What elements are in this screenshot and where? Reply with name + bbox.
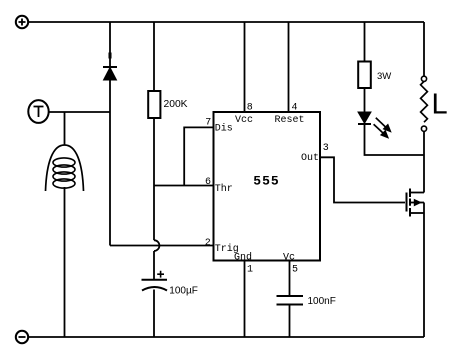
svg-text:Vcc: Vcc (235, 115, 253, 126)
wire bottom rail (29, 336, 425, 338)
wire diode to Trig corner (109, 80, 111, 246)
svg-text:555: 555 (253, 174, 279, 189)
coil winding loops (53, 158, 75, 188)
wire 200K branch from top rail (153, 22, 155, 91)
wire diode branch from top rail (109, 22, 111, 67)
wire 3W branch from top rail (364, 22, 366, 62)
wire capacitor to bottom rail (153, 290, 155, 338)
svg-text:Dis: Dis (215, 122, 233, 134)
LED light arrows (374, 118, 391, 138)
svg-text:8: 8 (247, 103, 253, 114)
wire hop over Trig line (154, 240, 159, 251)
wire junction down to MOSFET drain (423, 155, 425, 193)
capacitor 100uF (polarized) (142, 271, 168, 291)
svg-text:Reset: Reset (275, 115, 305, 126)
svg-text:1: 1 (247, 265, 253, 276)
svg-text:100nF: 100nF (308, 296, 336, 307)
LED (triangle down) (358, 112, 371, 124)
svg-text:6: 6 (205, 177, 211, 188)
wire Thr line (154, 185, 214, 187)
wire 3W to LED (364, 88, 366, 112)
wire hop bottom to capacitor (153, 251, 155, 279)
wire pin 8 Vcc from top rail (244, 22, 246, 112)
wire 100nF to bottom rail (289, 305, 291, 338)
wire from T to diode branch (49, 111, 110, 113)
wire pin 5 Vc to 100nF (289, 261, 291, 296)
inductor L zigzag (421, 81, 428, 122)
wire pin 3 Out to gate (320, 157, 405, 202)
svg-text:100µF: 100µF (169, 285, 198, 296)
svg-text:4: 4 (292, 103, 298, 114)
wire inductor to LED junction (423, 131, 425, 155)
wire LED to corner and across to right branch (365, 124, 425, 155)
resistor 3W (358, 62, 371, 89)
svg-text:Thr: Thr (215, 183, 233, 195)
terminal - (negative supply) (16, 331, 28, 343)
svg-text:3W: 3W (377, 71, 391, 82)
wire top rail (29, 21, 425, 23)
coil dome (solenoid enclosure) (46, 145, 84, 191)
svg-text:2: 2 (205, 238, 211, 249)
svg-text:5: 5 (292, 265, 298, 276)
inductor L terminal bottom circle (421, 126, 426, 131)
wire pin 4 Reset from top rail (288, 22, 290, 112)
diode (cathode up) (103, 67, 117, 80)
svg-text:L: L (432, 89, 448, 121)
wire right branch from top rail to inductor (423, 22, 425, 76)
terminal + (positive supply) (16, 16, 28, 28)
wire coil top lead (64, 112, 66, 145)
resistor 200K (148, 91, 160, 118)
svg-text:Out: Out (301, 153, 319, 164)
junction blob on diode wire (108, 53, 111, 59)
wire pin 1 Gnd to bottom rail (244, 261, 246, 338)
wire Dis line (184, 127, 213, 185)
wire 200K bottom through Thr junction to hop (153, 118, 155, 240)
svg-text:Gnd: Gnd (234, 252, 252, 264)
inductor L terminal top circle (421, 76, 426, 81)
wire Trig line to 555 pin 2 (110, 245, 214, 247)
capacitor 100nF (277, 296, 304, 305)
svg-text:7: 7 (205, 118, 211, 129)
wire coil bottom lead to bottom rail (64, 187, 66, 337)
op-amp 555 IC body (214, 112, 321, 261)
transistor MOSFET (407, 189, 425, 217)
sensor T (circle with T) (28, 100, 48, 123)
wire MOSFET source to bottom rail (423, 203, 425, 338)
svg-text:200K: 200K (164, 99, 188, 110)
svg-text:3: 3 (323, 143, 329, 154)
